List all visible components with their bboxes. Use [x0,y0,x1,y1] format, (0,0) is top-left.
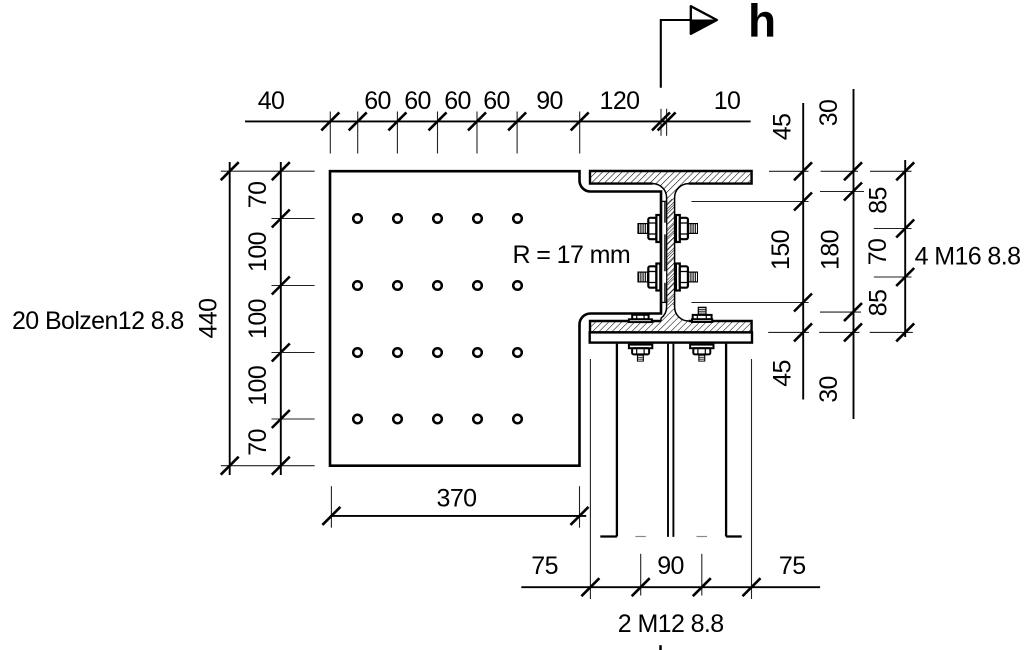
svg-text:440: 440 [195,299,223,339]
gaps where bolts pass [662,223,666,235]
nut chamfer lines [648,223,688,283]
steel plate with 20 studs, front view, incl. tab between beam flanges [330,171,661,466]
web side plate (150 high) edge line [661,201,666,302]
dimension line 70/100/100/100/70 [280,162,282,475]
web and fillets hatch [653,184,689,321]
svg-text:90: 90 [536,87,563,115]
svg-text:30: 30 [815,100,843,127]
dimension line 370 [330,515,586,517]
web bolts M16, row 1 (y=228.5) and row 2 (y=277) [648,215,688,291]
svg-text:10: 10 [714,87,741,115]
svg-text:60: 60 [364,87,391,115]
labels 75 90 75 [531,552,805,580]
svg-text:2 M12 8.8: 2 M12 8.8 [618,610,724,638]
vertical bolts below end plate [629,345,714,355]
svg-text:75: 75 [531,552,558,580]
ticks bottom [581,578,599,596]
svg-text:85: 85 [865,187,893,214]
svg-text:45: 45 [769,360,797,387]
web outlines [653,184,667,321]
dimension line 45/150/45 [802,103,804,400]
svg-text:h: h [748,0,776,47]
section arrow h [661,0,776,88]
svg-text:100: 100 [244,232,272,272]
svg-text:45: 45 [769,114,797,141]
row2 right [676,264,680,291]
labels 45 150 45 30 180 30 85 70 85 [767,100,892,403]
svg-text:30: 30 [815,376,843,403]
20 stud holes [353,214,522,423]
partial mark at bottom edge [659,645,662,650]
svg-text:100: 100 [244,366,272,406]
svg-text:60: 60 [444,87,471,115]
svg-text:75: 75 [779,552,806,580]
extension lines 370 [331,486,579,528]
beam HEB240 cross-section, hatched [590,171,752,332]
svg-text:90: 90 [657,552,684,580]
row1 right [676,215,680,242]
dimension line top [245,120,751,122]
extension lines top [330,109,666,154]
svg-text:70: 70 [244,182,272,209]
extension lines left [221,171,315,466]
dimension line 440 [229,162,231,475]
svg-text:60: 60 [483,87,510,115]
vertical bolt M12 left axis (x=640.4), above flange [629,315,652,322]
dimension line 85/70/85 [904,160,906,337]
bottom flange [590,321,752,332]
svg-text:70: 70 [244,429,272,456]
svg-text:85: 85 [865,290,893,317]
top flange [590,171,752,184]
thread shanks: dark with white stripes [637,223,698,283]
svg-text:70: 70 [864,239,892,266]
tick marks right [794,162,812,180]
svg-text:60: 60 [404,87,431,115]
labels 40 60 60 60 60 90 120 10 [258,87,741,115]
extension lines bottom [590,359,751,599]
svg-text:100: 100 [244,299,272,339]
extension lines right [691,171,912,332]
vertical bolt M12 right axis (x=701.8), above flange with thread [698,307,707,315]
labels 70 100 100 100 70 440 [195,182,273,456]
ticks 370 [322,507,340,525]
dimension line 75/90/75 [521,586,820,588]
svg-text:40: 40 [258,87,285,115]
svg-text:20 Bolzen12 8.8: 20 Bolzen12 8.8 [12,307,184,335]
svg-text:4 M16 8.8: 4 M16 8.8 [915,243,1021,271]
svg-text:150: 150 [767,230,795,270]
svg-text:120: 120 [600,87,640,115]
tick marks left [221,162,239,180]
svg-text:180: 180 [817,230,845,270]
row2 left [648,266,656,287]
svg-text:370: 370 [437,485,477,513]
dimension line 30/180/30 [853,89,855,419]
row1 left: nut, washer [648,218,656,239]
supporting member below (break at bottom) [600,344,741,537]
end plate under bottom flange [590,332,752,342]
svg-text:R = 17 mm: R = 17 mm [513,241,631,269]
tick marks top [321,112,339,130]
